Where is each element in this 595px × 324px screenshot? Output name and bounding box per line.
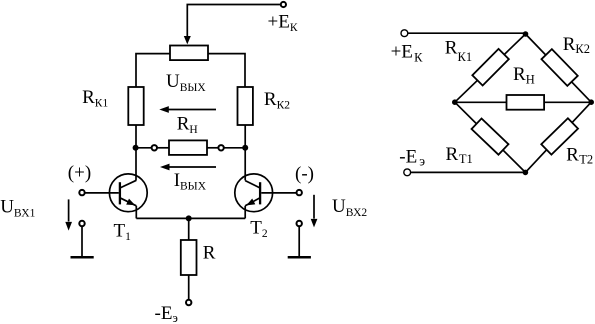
svg-text:(+): (+) [68,162,91,183]
svg-text:(-): (-) [295,163,314,184]
svg-text:R: R [203,242,216,263]
